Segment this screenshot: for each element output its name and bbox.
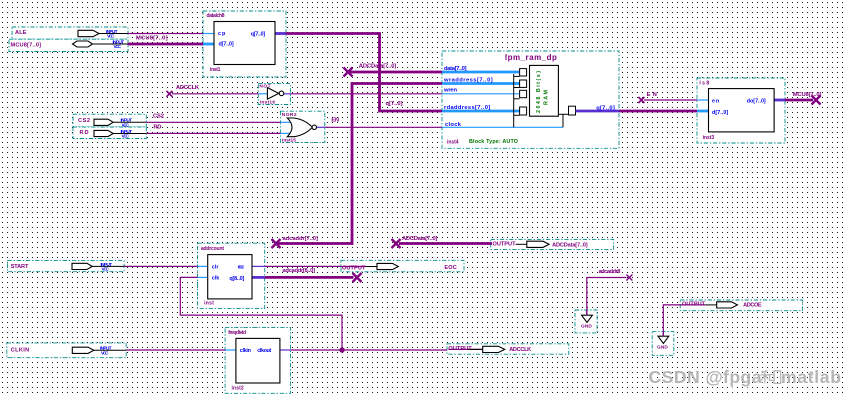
- svg-text:q[7..0]: q[7..0]: [386, 101, 403, 107]
- wire EN NOR2 output to RAM clock: [325, 118, 442, 128]
- bus MCU8 to datalatch d: [128, 35, 204, 44]
- svg-text:RAM: RAM: [544, 90, 550, 106]
- svg-text:wraddress[7..0]: wraddress[7..0]: [443, 77, 493, 83]
- svg-text:d[7..0]: d[7..0]: [712, 110, 728, 116]
- svg-text:inst4: inst4: [447, 140, 459, 146]
- bus ls8 do to MCU8 X: [785, 92, 821, 105]
- svg-text:clock: clock: [445, 122, 462, 128]
- wire ALE to datalatch cp: [128, 33, 204, 35]
- svg-text:lpm_ram_dp: lpm_ram_dp: [505, 53, 557, 62]
- svg-text:ALE: ALE: [15, 30, 27, 36]
- gate NOT inst16: [258, 84, 290, 106]
- wire NOT output to RAM wren: [290, 93, 442, 95]
- svg-text:VCC: VCC: [122, 134, 130, 140]
- svg-text:MCU8[7..0]: MCU8[7..0]: [11, 42, 42, 48]
- svg-text:inst15: inst15: [282, 138, 296, 144]
- bus ADCData into RAM data: [344, 64, 443, 77]
- bus q datalatch to rdaddress: [286, 34, 442, 112]
- wire ADCOE to GND2: [663, 305, 680, 336]
- svg-text:inst3: inst3: [703, 135, 715, 141]
- svg-text:d[7..0]: d[7..0]: [219, 41, 234, 47]
- input pin RD: [73, 127, 146, 140]
- wire EN to ls8 en: [638, 92, 697, 103]
- output pin ADCOE: [680, 300, 802, 311]
- svg-text:CLKIN: CLKIN: [11, 348, 29, 354]
- svg-text:EOC: EOC: [444, 265, 456, 271]
- input pin ALE: [12, 27, 128, 39]
- bus ADCData to output pin: [392, 236, 493, 248]
- gate NOR2 inst15: [280, 111, 324, 143]
- svg-text:addrcount: addrcount: [201, 246, 224, 252]
- wire CS2 to NOR2: [146, 114, 280, 123]
- svg-text:clkout: clkout: [257, 348, 271, 354]
- wire ADCCLK to NOT input: [166, 85, 258, 97]
- wire CLKIN to freqdivid clkin: [126, 349, 225, 351]
- ground GND1: [575, 310, 597, 333]
- output pin ADCCLK: [447, 344, 569, 354]
- wire freqdivid clkout to ADCCLK pin: [291, 349, 447, 351]
- svg-text:GND: GND: [657, 344, 668, 350]
- svg-text:ADCOE: ADCOE: [743, 303, 762, 309]
- svg-text:inst2: inst2: [232, 386, 244, 392]
- svg-text:adcaddr[8..0]: adcaddr[8..0]: [282, 268, 315, 274]
- svg-text:adcaddr8: adcaddr8: [599, 269, 622, 275]
- input pin START: [8, 261, 125, 273]
- svg-text:VCC: VCC: [101, 350, 109, 356]
- svg-text:q[8..0]: q[8..0]: [229, 276, 244, 282]
- svg-text:q[7..0]: q[7..0]: [596, 106, 615, 112]
- svg-text:q[7..0]: q[7..0]: [251, 31, 266, 37]
- svg-text:GND: GND: [581, 323, 592, 329]
- svg-text:Block Type: AUTO: Block Type: AUTO: [469, 139, 518, 145]
- svg-text:OUTPUT: OUTPUT: [342, 265, 366, 271]
- bus RAM q to ls8 d: [619, 110, 697, 113]
- svg-text:ADCData[7..0]: ADCData[7..0]: [552, 242, 588, 248]
- svg-text:ADCCLK: ADCCLK: [509, 347, 531, 353]
- wire adcaddr8 to GND1: [587, 269, 633, 315]
- block freqdivid inst2: [225, 327, 291, 393]
- block addrcount inst: [198, 243, 265, 308]
- svg-text:inst: inst: [204, 301, 214, 307]
- svg-text:wren: wren: [443, 88, 457, 94]
- block datalatch inst1: [203, 11, 286, 77]
- svg-text:inst1: inst1: [210, 67, 221, 73]
- svg-text:CSDN @fpga: CSDN @fpga: [649, 367, 762, 387]
- wire clk net addrcount clk to clock junction: [180, 277, 344, 352]
- svg-text:ADCData[7..0]: ADCData[7..0]: [402, 236, 437, 242]
- ground GND2: [652, 332, 674, 356]
- svg-text:RD: RD: [80, 130, 89, 136]
- svg-text:clr: clr: [212, 264, 220, 270]
- svg-text:MCU8[7..0]: MCU8[7..0]: [136, 35, 168, 41]
- svg-text:ADCCLK: ADCCLK: [176, 85, 200, 91]
- svg-text:OUTPUT: OUTPUT: [682, 301, 706, 307]
- svg-text:adcaddr[7..0]: adcaddr[7..0]: [283, 236, 318, 242]
- input pin CS2: [73, 114, 146, 128]
- svg-text:matlab: matlab: [781, 367, 841, 387]
- svg-text:ADCData[7..0]: ADCData[7..0]: [359, 64, 397, 70]
- svg-text:clkin: clkin: [240, 348, 251, 354]
- svg-text:clk: clk: [212, 275, 220, 281]
- svg-text:rdaddress[7..0]: rdaddress[7..0]: [444, 105, 490, 111]
- input pin CLKIN: [7, 343, 126, 358]
- svg-text:VCC: VCC: [102, 266, 110, 272]
- svg-text:do[7..0]: do[7..0]: [747, 98, 766, 104]
- svg-text:2048 Bit(s): 2048 Bit(s): [536, 71, 542, 113]
- bus adcaddr to RAM wraddress: [272, 84, 443, 249]
- svg-text:OUTPUT: OUTPUT: [448, 346, 472, 352]
- svg-text:CS2: CS2: [153, 114, 164, 120]
- svg-text:data[7..0]: data[7..0]: [444, 66, 467, 72]
- svg-text:OUTPUT: OUTPUT: [493, 242, 517, 248]
- svg-text:cp: cp: [218, 31, 226, 37]
- svg-text:freqdivid: freqdivid: [228, 330, 246, 336]
- svg-text:RD: RD: [153, 125, 161, 131]
- svg-text:inst16: inst16: [260, 100, 276, 106]
- output pin EOC: [341, 260, 464, 272]
- svg-text:START: START: [11, 264, 29, 270]
- svg-text:EN: EN: [647, 92, 657, 98]
- wire RD to NOR2: [146, 125, 280, 134]
- wire addrcount eoc to EOC pin: [265, 265, 341, 267]
- wire START to addrcount clr: [124, 265, 198, 267]
- input pin MCU8[7..0]: [9, 39, 128, 51]
- svg-text:en: en: [712, 98, 719, 104]
- svg-text:datalch8: datalch8: [207, 13, 225, 19]
- block lpm_ram_dp inst4: [442, 51, 619, 148]
- output pin ADCData[7..0]: [491, 239, 614, 249]
- svg-text:MCU8[7..0]: MCU8[7..0]: [793, 92, 822, 98]
- svg-text:VCC: VCC: [114, 44, 122, 50]
- svg-text:eoc: eoc: [238, 264, 245, 270]
- svg-text:EN: EN: [331, 118, 339, 124]
- bus addrcount q to adcaddr X: [265, 268, 362, 282]
- block ls8 inst3: [697, 78, 785, 143]
- svg-text:VCC: VCC: [107, 33, 115, 39]
- svg-text:NOR2: NOR2: [282, 112, 297, 118]
- svg-text:CS2: CS2: [78, 118, 90, 124]
- watermark CSDN: [649, 367, 843, 388]
